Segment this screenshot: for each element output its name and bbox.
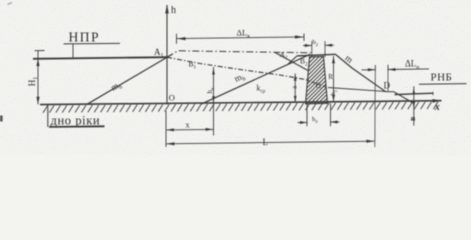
svg-text:L: L: [263, 137, 269, 147]
svg-text:РНБ: РНБ: [431, 72, 453, 84]
svg-text:O: O: [169, 93, 175, 103]
svg-text:R: R: [328, 73, 333, 81]
svg-text:дно ріки: дно ріки: [51, 114, 101, 128]
svg-text:D: D: [384, 81, 391, 91]
svg-text:х: х: [186, 120, 190, 129]
svg-text:С: С: [316, 80, 322, 90]
svg-text:в: в: [408, 116, 417, 121]
svg-text:НПР: НПР: [69, 30, 101, 45]
svg-text:h: h: [171, 5, 176, 16]
